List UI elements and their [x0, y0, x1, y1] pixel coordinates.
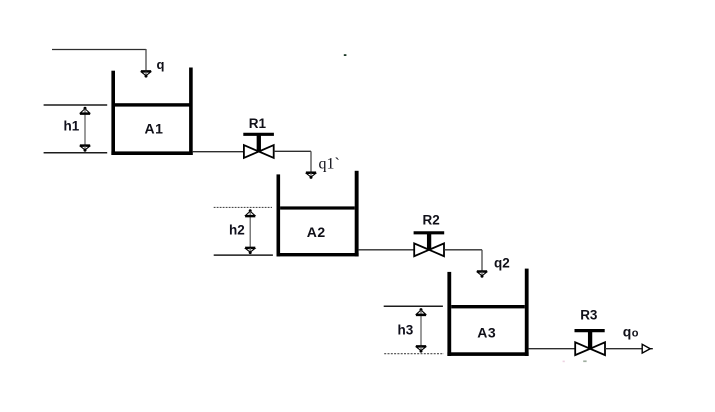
- svg-text:R3: R3: [580, 308, 598, 323]
- tank A3 bottom: [447, 352, 528, 356]
- valve R1: [243, 134, 274, 158]
- svg-text:h2: h2: [229, 222, 245, 237]
- wire valve R3 to outlet: [605, 348, 642, 350]
- arrowhead qo (right): [642, 344, 653, 353]
- wire q1 vertical: [310, 151, 312, 172]
- tank A2 right wall: [355, 171, 359, 257]
- valve R3: [575, 331, 606, 356]
- svg-text:q1`: q1`: [319, 156, 340, 173]
- svg-text:o: o: [632, 328, 639, 340]
- wire valve R2 to tank3 horizontal: [444, 249, 482, 251]
- arrowhead q (down): [141, 71, 151, 77]
- tank A2 water level: [280, 206, 355, 209]
- tank A1 left wall: [111, 71, 115, 155]
- node ref line h3 top: [384, 305, 443, 307]
- arrowhead q1 (down): [306, 173, 316, 179]
- svg-text:q: q: [623, 324, 632, 340]
- svg-text:A1: A1: [145, 121, 164, 137]
- tank A1 bottom: [111, 151, 192, 155]
- svg-text:q2: q2: [494, 256, 510, 271]
- dimension arrow h1: [80, 107, 90, 152]
- stray mark 2: [563, 361, 565, 363]
- stray mark: [344, 54, 347, 56]
- valve R2: [414, 233, 445, 256]
- wire inflow q vertical: [145, 49, 147, 70]
- node ref line h1 bottom: [44, 152, 108, 154]
- tank A2 bottom: [277, 253, 359, 256]
- wire tank1 to valve R1: [193, 151, 244, 153]
- dimension arrow h2: [245, 209, 255, 254]
- svg-text:R2: R2: [423, 213, 440, 228]
- svg-text:h1: h1: [64, 119, 80, 134]
- tank A3 water level: [451, 305, 525, 308]
- dimension arrow h3: [416, 308, 426, 353]
- wire inflow q horizontal: [52, 49, 146, 51]
- node ref line h2 top: [214, 206, 272, 208]
- wire valve R1 to tank2 horizontal: [274, 150, 311, 152]
- wire tank3 to valve R3: [529, 348, 576, 350]
- tank A2 left wall: [277, 174, 281, 256]
- tank A3 right wall: [525, 269, 529, 356]
- wire tank2 to valve R2: [359, 249, 415, 251]
- stray mark 3: [583, 360, 586, 362]
- arrowhead q2 (down): [477, 271, 487, 277]
- tank A1 right wall: [189, 68, 193, 156]
- svg-text:q: q: [157, 57, 165, 72]
- svg-text:R1: R1: [249, 116, 267, 131]
- node ref line h3 bottom: [384, 353, 444, 355]
- svg-text:A2: A2: [307, 224, 326, 240]
- tank A1 water level: [114, 103, 190, 106]
- svg-text:A3: A3: [477, 325, 496, 341]
- svg-text:h3: h3: [398, 323, 414, 338]
- wire q2 vertical: [481, 250, 483, 271]
- node ref line h1 top: [44, 104, 108, 106]
- node ref line h2 bottom: [214, 254, 273, 256]
- tank A3 left wall: [447, 272, 451, 356]
